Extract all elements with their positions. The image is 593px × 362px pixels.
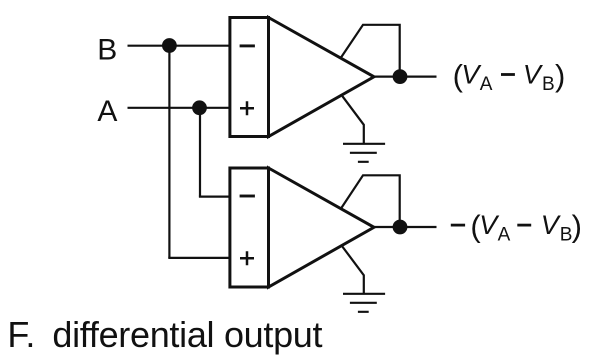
op-amp U1 feedback wire [341, 25, 400, 77]
wire from A junction down [199, 108, 201, 197]
svg-text:differential output: differential output [52, 314, 322, 355]
op-amp U1 plus pin label [240, 101, 254, 115]
svg-text:V: V [541, 210, 562, 240]
wire from B branch to U2 non-inverting input [168, 257, 230, 259]
op-amp U1 minus pin label [240, 44, 255, 47]
svg-text:A: A [97, 95, 117, 128]
svg-text:A: A [498, 224, 511, 245]
output label (VA minus VB) [453, 58, 566, 95]
wire A horizontal to U1 non-inverting input [128, 107, 231, 109]
wire from B junction down [168, 46, 170, 258]
op-amp U2 plus pin label [240, 251, 254, 265]
leading minus sign of -(VA - VB) [451, 224, 465, 227]
svg-text:): ) [555, 58, 565, 93]
op-amp U1 output wire [374, 75, 437, 77]
svg-text:V: V [523, 60, 544, 90]
svg-text:B: B [542, 74, 555, 95]
svg-text:F.: F. [7, 314, 35, 355]
op-amp U2 ground wire [342, 247, 363, 294]
op-amp U2 output node dot [393, 220, 408, 235]
op-amp U1 output node dot [393, 69, 408, 84]
junction dot on B wire [162, 38, 177, 53]
op-amp U2 input block [230, 168, 269, 287]
wire B horizontal to U1 inverting input [128, 45, 231, 47]
op-amp U2 minus pin label [240, 195, 255, 198]
op-amp U2 feedback wire [341, 175, 400, 227]
junction dot on A wire [192, 100, 207, 115]
minus sign in (VA - VB) [501, 73, 515, 76]
op-amp U2 triangle [269, 168, 375, 287]
svg-text:): ) [572, 208, 582, 243]
svg-text:B: B [97, 33, 117, 66]
op-amp U1 ground wire [342, 96, 363, 144]
svg-text:A: A [480, 74, 493, 95]
caption F. differential output [7, 314, 322, 355]
minus sign in -(VA - VB) [517, 224, 531, 227]
output label minus (VA minus VB) [470, 208, 582, 245]
ground symbol for U2 [343, 294, 385, 312]
svg-text:B: B [560, 224, 573, 245]
ground symbol for U1 [343, 144, 385, 162]
op-amp U1 input block [230, 18, 269, 137]
op-amp U2 output wire [374, 226, 437, 228]
wire from A branch to U2 inverting input [199, 196, 230, 198]
op-amp U1 triangle [269, 18, 375, 137]
